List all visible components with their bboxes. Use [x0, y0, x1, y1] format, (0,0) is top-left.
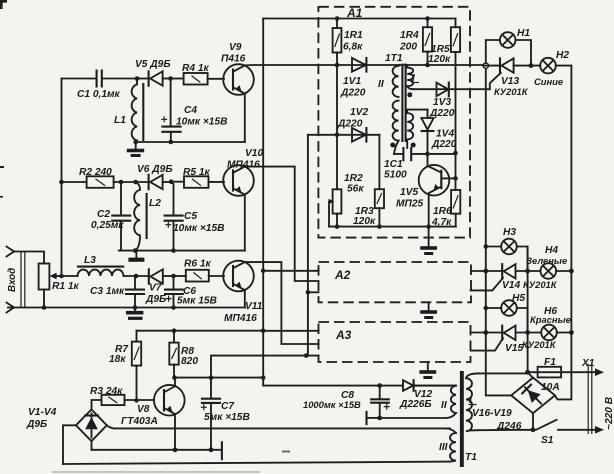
resistor R8	[169, 331, 198, 378]
svg-text:А2: А2	[334, 268, 351, 282]
transformer T1 winding II	[380, 386, 456, 418]
lamp H1	[500, 28, 530, 48]
chassis bar	[221, 442, 223, 459]
inductor L3	[62, 255, 124, 276]
input terminal bottom	[7, 303, 15, 313]
svg-text:5мк 15В: 5мк 15В	[177, 296, 217, 307]
node bus ch2	[59, 180, 64, 185]
resistor R4	[171, 63, 224, 85]
diode bridge V1-V4	[26, 407, 107, 441]
lamp return column	[555, 66, 571, 400]
node V8 collector	[172, 375, 177, 380]
wire	[14, 252, 44, 264]
svg-text:5100: 5100	[384, 170, 407, 181]
wire	[517, 308, 528, 333]
ground (below A1)	[420, 227, 437, 255]
lamp H4	[526, 245, 567, 279]
node	[42, 305, 47, 310]
R1 wiper	[50, 273, 62, 280]
wire V10 emitter	[244, 195, 246, 251]
diode V5	[135, 59, 171, 86]
svg-text:4,7к: 4,7к	[431, 217, 452, 228]
column 1R1..1R2	[336, 65, 338, 189]
connector double bars	[588, 364, 592, 434]
wire bridge bottom to common rail	[91, 441, 93, 450]
node C8 bottom	[377, 416, 382, 421]
svg-text:R5 1к: R5 1к	[183, 167, 211, 178]
lamp H3 branch	[486, 246, 501, 248]
node L1 top	[135, 76, 140, 81]
node V15 cathode	[525, 330, 530, 335]
svg-text:L1: L1	[114, 115, 126, 126]
node C6	[171, 274, 176, 279]
anode column	[486, 66, 511, 396]
svg-text:Д9Б: Д9Б	[26, 419, 47, 430]
wire V11 collector to A3	[245, 262, 319, 344]
transistor 1V5	[396, 165, 456, 227]
svg-text:10мк ×15В: 10мк ×15В	[176, 117, 228, 128]
svg-text:5мк ×15В: 5мк ×15В	[204, 412, 250, 423]
lamp H5	[501, 293, 525, 316]
node open circle (A1 out)	[483, 63, 488, 68]
bottom rail	[8, 307, 245, 309]
node 1R2 bottom	[335, 224, 340, 229]
wire V9 collector / A1 input	[245, 64, 483, 66]
svg-text:V11: V11	[245, 301, 263, 312]
node	[569, 269, 574, 274]
svg-text:120к: 120к	[428, 54, 451, 65]
wire V8 emitter down	[174, 414, 176, 450]
resistor 1R2 (pot)	[329, 173, 365, 227]
svg-text:C3 1мк: C3 1мк	[90, 286, 125, 297]
svg-text:1000мк ×15В: 1000мк ×15В	[303, 399, 361, 410]
svg-text:~220 В: ~220 В	[604, 397, 614, 430]
node 1R3 bottom	[377, 224, 382, 229]
lamp H2	[534, 50, 569, 87]
node V15 anode	[483, 330, 488, 335]
svg-text:V10: V10	[245, 148, 263, 159]
cable screen lines	[21, 252, 25, 308]
transformer 1T1 winding II	[378, 65, 399, 154]
diode 1V1	[340, 58, 366, 99]
svg-text:П416: П416	[221, 54, 246, 65]
svg-text:820: 820	[181, 356, 198, 367]
svg-text:0,25мк: 0,25мк	[91, 220, 124, 231]
svg-text:V1-V4: V1-V4	[28, 407, 57, 418]
ground (under L1)	[127, 142, 144, 157]
svg-text:МП416: МП416	[224, 313, 257, 324]
diode V6	[137, 164, 173, 189]
svg-text:II: II	[441, 400, 447, 411]
node C4	[168, 76, 173, 81]
svg-text:V9: V9	[229, 42, 242, 53]
diode 1V3 / gate wire	[414, 83, 490, 119]
node V8 base	[134, 398, 139, 403]
svg-text:1R1: 1R1	[344, 30, 363, 41]
node	[59, 274, 64, 279]
wire bridge right corner to supply return rail	[107, 425, 115, 428]
resistor R7	[109, 331, 141, 401]
transistor V10	[223, 148, 263, 196]
node C5	[169, 179, 174, 184]
wire A2 feed	[263, 270, 318, 272]
thyristor V15	[471, 326, 557, 354]
svg-text:Зеленые: Зеленые	[526, 255, 567, 266]
capacitor C6	[165, 276, 217, 308]
inductor L2	[134, 182, 161, 251]
svg-text:V6 Д9Б: V6 Д9Б	[137, 164, 173, 175]
node 1V5 collector / 1C1	[425, 152, 430, 157]
capacitor 1C1	[384, 148, 456, 181]
block A3 dashed box	[319, 322, 471, 362]
svg-text:1С1: 1С1	[384, 159, 403, 170]
svg-text:III: III	[439, 442, 448, 453]
node C7 top	[209, 375, 214, 380]
supply return rail	[114, 427, 450, 429]
svg-text:1V4: 1V4	[436, 129, 454, 140]
svg-text:1R2: 1R2	[344, 173, 363, 184]
diode V12	[399, 380, 432, 410]
resistor R3	[90, 386, 154, 409]
svg-text:V16-V19: V16-V19	[472, 408, 512, 419]
svg-text:Синие: Синие	[534, 76, 563, 87]
node H3 branch	[484, 244, 489, 249]
wire collector rail to bus	[175, 377, 264, 379]
capacitor C5	[165, 182, 225, 251]
node 1V5 emitter	[426, 224, 431, 229]
switch S1	[536, 420, 604, 446]
resistor 1R4	[399, 19, 432, 66]
input terminal top	[7, 247, 15, 257]
node V14 anode	[483, 269, 488, 274]
resistor 1R1	[333, 19, 364, 65]
node	[171, 305, 176, 310]
wire V11 emitter	[244, 290, 246, 307]
node 1V2	[335, 133, 340, 138]
svg-text:L2: L2	[149, 198, 161, 209]
transistor V9	[221, 42, 254, 95]
wire	[516, 40, 532, 66]
svg-text:V7: V7	[149, 283, 163, 294]
transformer T1 winding III	[439, 429, 456, 462]
svg-text:L3: L3	[84, 255, 96, 266]
lamp H6	[530, 306, 571, 340]
scan edge mark left	[0, 166, 4, 168]
transformer T1 core	[460, 371, 477, 467]
svg-text:R4 1к: R4 1к	[182, 63, 210, 74]
svg-text:II: II	[378, 79, 384, 90]
diode 1V4	[421, 110, 456, 167]
wire ch1 bottom rail	[136, 141, 245, 143]
svg-text:КУ201К: КУ201К	[494, 86, 529, 97]
capacitor C1	[77, 71, 137, 101]
wire R7-R8 top rail	[137, 330, 264, 332]
transistor V11	[223, 261, 263, 324]
svg-text:V8: V8	[137, 404, 150, 415]
fuse F1	[528, 357, 597, 393]
node	[569, 330, 574, 335]
node	[171, 248, 176, 253]
lamp H5 branch	[486, 307, 501, 309]
svg-text:18к: 18к	[109, 354, 126, 365]
polarity dot	[407, 92, 412, 97]
resistor 1R3	[353, 135, 384, 227]
svg-text:R3 24к: R3 24к	[90, 386, 123, 397]
svg-text:F1: F1	[544, 357, 556, 368]
node emitter	[173, 447, 178, 452]
svg-text:Н1: Н1	[517, 28, 530, 39]
chassis bar (C8)	[367, 412, 380, 424]
node	[169, 140, 174, 145]
resistor R2	[79, 167, 149, 188]
svg-text:V5 Д9Б: V5 Д9Б	[135, 59, 171, 70]
diode bridge V16-V19	[472, 378, 555, 432]
left vertical bus	[61, 79, 63, 277]
svg-text:1V1: 1V1	[343, 76, 361, 87]
svg-text:Н5: Н5	[512, 293, 525, 304]
svg-text:S1: S1	[541, 435, 554, 446]
diode V7	[145, 269, 174, 305]
wire V8 collector	[174, 378, 176, 387]
svg-text:6,8к: 6,8к	[343, 42, 363, 53]
svg-text:Красные: Красные	[530, 314, 571, 325]
node C3	[134, 274, 139, 279]
svg-text:1R4: 1R4	[400, 30, 419, 41]
wire V10 collector to A2	[245, 167, 319, 281]
wire 1V2 row	[308, 134, 380, 136]
bottom rail (to T1 winding III)	[63, 462, 450, 464]
svg-text:10мк ×15В: 10мк ×15В	[173, 223, 225, 234]
svg-text:МП25: МП25	[396, 199, 423, 210]
transformer 1T1 core	[385, 53, 406, 141]
ground (below A3)	[419, 362, 436, 379]
thyristor V14	[471, 264, 558, 291]
svg-text:А3: А3	[335, 328, 352, 342]
transformer T1 winding I (primary)	[466, 373, 533, 431]
supply bus vertical	[262, 19, 264, 386]
wire	[556, 270, 571, 272]
node H1/V13 cathode	[529, 63, 534, 68]
svg-text:C4: C4	[184, 105, 197, 116]
cathode column	[527, 247, 529, 373]
block A1 dashed box	[318, 7, 470, 238]
polarity dot	[390, 143, 395, 148]
node	[335, 63, 340, 68]
svg-text:1V2: 1V2	[350, 107, 368, 118]
transistor V8	[121, 385, 185, 427]
node wiper bus join	[304, 353, 309, 358]
ground (under L2)	[128, 251, 144, 262]
capacitor C4	[161, 79, 227, 143]
capacitor C7	[201, 378, 250, 450]
svg-text:C1 0,1мк: C1 0,1мк	[77, 89, 121, 100]
wire A3 feed	[263, 330, 318, 332]
node	[133, 248, 138, 253]
lamp H1 branch	[486, 40, 500, 63]
wire A2 wiper feed	[308, 291, 319, 293]
svg-text:C2: C2	[97, 209, 110, 220]
svg-text:Д226Б: Д226Б	[399, 399, 432, 410]
connector X1 top arrow	[581, 358, 604, 376]
lamp H3	[501, 227, 517, 254]
node F1 junction	[525, 370, 530, 375]
wire stabilized out up-over	[211, 356, 319, 378]
svg-text:Д220: Д220	[429, 108, 455, 119]
resistor R6	[174, 259, 225, 282]
node	[133, 140, 138, 145]
svg-text:120к: 120к	[353, 216, 376, 227]
node	[133, 305, 138, 310]
node C8 top	[377, 383, 382, 388]
svg-text:Д220: Д220	[337, 119, 363, 130]
ground (under C3)	[126, 308, 143, 320]
block A2 dashed box	[319, 262, 472, 302]
node collector rail	[261, 375, 266, 380]
wiper column from A1	[307, 135, 309, 356]
svg-text:Д9Б: Д9Б	[145, 294, 166, 305]
svg-text:МП416: МП416	[227, 160, 260, 171]
svg-text:C5: C5	[184, 211, 197, 222]
scan shadow bottom	[52, 471, 260, 473]
node C2	[119, 180, 124, 185]
svg-text:Д220: Д220	[340, 88, 366, 99]
transformer 1T1 winding I lower	[407, 110, 427, 148]
node 1V5 base	[453, 176, 458, 181]
svg-text:ГТ403А: ГТ403А	[121, 416, 158, 427]
scan corner artifact	[0, 0, 7, 9]
svg-text:Д220: Д220	[431, 139, 457, 150]
capacitor C8	[303, 386, 390, 418]
wire ch2 bottom rail	[119, 250, 245, 252]
polarity dot	[411, 143, 416, 148]
svg-text:V14: V14	[502, 280, 520, 291]
inductor L1	[114, 79, 143, 143]
svg-text:C7: C7	[221, 401, 235, 412]
diode 1V2	[337, 107, 368, 142]
wire	[137, 78, 149, 80]
node L2	[133, 180, 138, 185]
node R8 top	[172, 328, 177, 333]
resistor R1 (potentiometer)	[39, 264, 80, 308]
node 1R4 top	[425, 16, 430, 21]
A1 bottom rail	[329, 226, 456, 228]
svg-text:1R6: 1R6	[433, 206, 452, 217]
wire bridge top to F1 node	[528, 373, 533, 378]
node 1R5 / 1C1	[453, 151, 458, 156]
svg-text:V15: V15	[505, 343, 523, 354]
svg-text:Вход: Вход	[7, 268, 18, 292]
wire	[517, 247, 528, 272]
wire bridge left corner to bottom rail	[63, 425, 76, 464]
capacitor C2	[91, 182, 130, 251]
ground (below A2)	[420, 302, 437, 319]
resistor 1R5	[428, 19, 460, 191]
node A2 wiper feed	[306, 290, 311, 295]
capacitor C3	[90, 276, 144, 308]
node C7 bottom	[209, 447, 214, 452]
svg-text:Н2: Н2	[556, 50, 569, 61]
wire	[557, 332, 572, 334]
wire	[62, 181, 87, 183]
node 1R4 bottom	[425, 63, 430, 68]
svg-text:R2 240: R2 240	[79, 167, 112, 178]
node 1R1 top	[335, 16, 340, 21]
svg-text:R1 1к: R1 1к	[52, 281, 80, 292]
svg-text:Н3: Н3	[503, 227, 516, 238]
transformer 1T1 winding I upper	[407, 65, 419, 89]
resistor 1R6	[431, 190, 460, 228]
wire	[124, 275, 149, 277]
wire bridge bottom / S1	[532, 413, 534, 430]
resistor R5	[171, 167, 224, 188]
node V14 cathode	[525, 269, 530, 274]
wire rectifier out	[263, 385, 456, 387]
node S1	[531, 427, 536, 432]
svg-text:R6 1к: R6 1к	[184, 259, 212, 270]
node H5 branch	[484, 306, 489, 311]
common rail	[92, 449, 222, 451]
node A2 feed	[261, 269, 266, 274]
svg-text:200: 200	[399, 42, 417, 53]
wire ch1 top	[62, 78, 96, 80]
svg-text:1V3: 1V3	[433, 97, 451, 108]
svg-text:Т1: Т1	[465, 452, 477, 463]
thyristor V13	[483, 58, 540, 97]
node A3 feed	[261, 329, 266, 334]
wire A1 top supply	[263, 18, 455, 20]
wire V9 emitter down	[244, 94, 246, 142]
svg-text:1Т1: 1Т1	[385, 53, 403, 64]
svg-text:56к: 56к	[347, 184, 364, 195]
svg-text:1V5: 1V5	[400, 187, 418, 198]
